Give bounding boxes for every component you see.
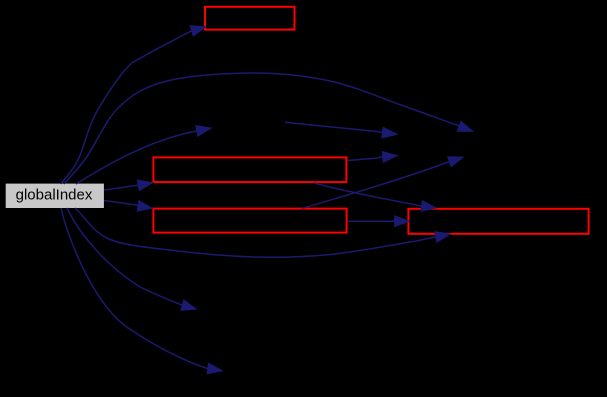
edge globalIndex to mid-left node [76,126,212,185]
edge globalIndex to top node [61,26,206,184]
edge globalIndex to box R2 [104,200,153,211]
edge globalIndex swooping to box R3 bottom [75,208,451,257]
edge globalIndex to lower node [67,208,197,310]
edge box R2 top to upper right node [302,157,464,209]
edge box R1 to right node [348,151,398,162]
node box top (red) [205,7,295,30]
node box R2 (red) [153,209,346,233]
node box R3 (red) [408,209,588,234]
node box R1 (red) [153,157,346,182]
node globalIndex (gray) [6,184,104,208]
edge globalIndex to bottom node [61,208,223,374]
edge globalIndex arcing to far right node [64,73,473,184]
edge box R2 to box R3 [348,216,410,227]
svg-text:globalIndex: globalIndex [16,186,93,203]
edge between middle nodes [285,122,397,138]
edge globalIndex to box R1 [104,180,153,191]
edge box R1 bottom to box R3 top [314,183,436,211]
